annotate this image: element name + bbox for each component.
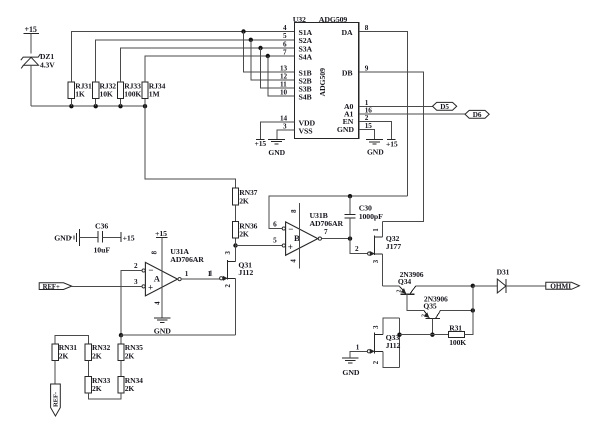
U32 pin number 2 bbox=[365, 114, 369, 122]
Q33 pin number 3 bbox=[373, 325, 380, 329]
label Q34 bbox=[398, 277, 412, 286]
svg-text:1: 1 bbox=[185, 270, 189, 278]
svg-text:2: 2 bbox=[365, 114, 369, 122]
wire U31A pin 2 feedback bbox=[121, 271, 142, 336]
label 2N3906 Q34 bbox=[400, 270, 424, 279]
svg-text:D6: D6 bbox=[473, 111, 482, 119]
label AD706AR U31A bbox=[170, 255, 204, 264]
U32 pin number 1 bbox=[365, 99, 369, 107]
label DZ1 bbox=[40, 52, 54, 61]
U32 pin name GND bbox=[337, 125, 354, 134]
wire U31B pin6 feedback loop bbox=[269, 196, 408, 228]
multiplexer U32 ADG509 body bbox=[295, 23, 359, 139]
label 1000pF bbox=[359, 212, 383, 221]
wire RN35 to RN34 bbox=[120, 360, 122, 376]
wire Q34 base down bbox=[407, 294, 424, 310]
svg-text:6: 6 bbox=[283, 40, 287, 48]
svg-text:11: 11 bbox=[280, 80, 287, 88]
wire U31B output bbox=[322, 238, 351, 240]
label Q33 bbox=[386, 333, 400, 342]
Q31 gate circle bbox=[220, 277, 223, 280]
wire bottom rail of RJ resistors bbox=[31, 105, 145, 107]
ground symbol rotated at C36 bbox=[70, 229, 80, 246]
resistor RN35 bbox=[118, 344, 124, 361]
Q32 gate pin number 2 bbox=[355, 245, 359, 253]
wire node to D31 bbox=[473, 285, 498, 287]
wire RN36 bottom to node bbox=[235, 237, 237, 245]
svg-text:GND: GND bbox=[337, 125, 354, 134]
U32 pin number 5 bbox=[283, 32, 287, 40]
port D6 bbox=[465, 110, 489, 119]
U32 pin name S2B bbox=[299, 76, 312, 85]
wire A0 pin 1 to D5 bbox=[359, 106, 433, 108]
svg-text:S4B: S4B bbox=[299, 92, 312, 101]
wire VSS pin 3 bbox=[277, 130, 295, 139]
op-amp U31B body bbox=[286, 222, 318, 255]
label 10uF bbox=[94, 246, 111, 255]
wire RJ31 lower lead bbox=[70, 99, 72, 107]
node RJ34 bottom bbox=[143, 104, 147, 108]
svg-text:100K: 100K bbox=[449, 338, 466, 347]
U32 pin number 9 bbox=[365, 64, 369, 72]
node S1A branch bbox=[241, 29, 245, 33]
power +15 at C36 bbox=[121, 232, 135, 242]
svg-text:2: 2 bbox=[134, 262, 138, 270]
label AD706AR U31B bbox=[310, 219, 344, 228]
U31A pin number 3 bbox=[134, 278, 138, 286]
svg-text:REF-: REF- bbox=[52, 392, 59, 407]
wire Q33 to R31 bbox=[400, 334, 449, 336]
svg-text:J177: J177 bbox=[386, 242, 401, 251]
wire +15 to DZ1 bbox=[30, 33, 32, 53]
svg-text:3: 3 bbox=[283, 122, 287, 130]
svg-text:ADG509: ADG509 bbox=[319, 15, 348, 24]
Q32 pin number 1 bbox=[373, 228, 380, 232]
node collector Q35 bbox=[471, 308, 475, 312]
svg-text:10uF: 10uF bbox=[94, 246, 111, 255]
U31A pin number 8 bbox=[152, 250, 159, 254]
label Q31 bbox=[238, 260, 252, 269]
svg-text:6: 6 bbox=[273, 221, 277, 229]
svg-text:OHMI: OHMI bbox=[550, 282, 571, 291]
U32 pin number 4 bbox=[283, 24, 287, 32]
U31B pin 6 circle bbox=[282, 227, 285, 230]
svg-text:DA: DA bbox=[341, 28, 353, 37]
wire Q32 source to Q34 emitter bbox=[383, 285, 400, 287]
svg-text:+15: +15 bbox=[255, 139, 267, 148]
op-amp U31A body bbox=[145, 262, 177, 296]
svg-text:2: 2 bbox=[422, 314, 428, 317]
wire RJ31 to S1A bbox=[71, 32, 294, 82]
svg-text:REF+: REF+ bbox=[43, 284, 60, 291]
svg-text:GND: GND bbox=[154, 327, 171, 336]
svg-text:10: 10 bbox=[280, 88, 287, 96]
label C36 bbox=[95, 221, 108, 230]
label GND at C36 bbox=[54, 234, 71, 243]
svg-text:2: 2 bbox=[397, 289, 403, 292]
wire C36 left lead bbox=[80, 236, 98, 238]
U32 pin name A0 bbox=[344, 102, 354, 111]
label minus U31A bbox=[148, 265, 153, 275]
Q33 gate pin number 1 bbox=[356, 343, 360, 351]
label RJ33 100K bbox=[124, 81, 141, 98]
label RN33 2K bbox=[92, 376, 110, 393]
wire RN32 to RN33 bbox=[87, 360, 89, 376]
node C30 top bbox=[348, 194, 352, 198]
svg-text:2K: 2K bbox=[92, 351, 102, 360]
svg-text:5: 5 bbox=[273, 236, 277, 244]
label U31B bbox=[310, 211, 328, 220]
node RJ33 bottom bbox=[118, 104, 122, 108]
wire U31B supply stub bbox=[298, 203, 300, 268]
svg-text:2K: 2K bbox=[239, 196, 249, 205]
svg-text:7: 7 bbox=[283, 48, 287, 56]
transistor Q32 J177 bbox=[370, 221, 382, 285]
svg-text:8: 8 bbox=[365, 24, 369, 32]
svg-text:J112: J112 bbox=[238, 268, 253, 277]
diode D31 bbox=[497, 279, 506, 293]
U32 pin name DB bbox=[342, 68, 353, 77]
svg-text:ADG509: ADG509 bbox=[318, 68, 327, 97]
node S2A branch bbox=[249, 38, 253, 42]
wire DZ1 to bottom rail bbox=[30, 65, 32, 106]
node S4A branch bbox=[266, 54, 270, 58]
wire C36 right lead bbox=[102, 236, 121, 238]
label A inside U31A bbox=[154, 274, 161, 284]
wire D31 to OHMI bbox=[506, 285, 546, 287]
U32 pin number 6 bbox=[283, 40, 287, 48]
label minus U31B bbox=[288, 224, 293, 234]
svg-text:15: 15 bbox=[365, 122, 372, 130]
port OHMI bbox=[546, 282, 580, 291]
U31B pin 5 circle bbox=[282, 244, 285, 247]
port D5 bbox=[433, 102, 457, 111]
node C30 bottom bbox=[348, 236, 352, 240]
port REF- bbox=[51, 384, 61, 416]
svg-text:+: + bbox=[288, 242, 293, 252]
label R31 bbox=[449, 324, 462, 333]
zener diode DZ1 bbox=[21, 54, 41, 69]
U31B pin number 6 bbox=[273, 221, 277, 229]
resistor RJ31 bbox=[68, 82, 74, 99]
transistor Q31 J112 bbox=[223, 246, 235, 336]
wire branch to S4B bbox=[268, 56, 295, 96]
svg-text:1: 1 bbox=[209, 270, 213, 278]
node S3A branch bbox=[258, 46, 262, 50]
wire C30 top lead bbox=[349, 196, 351, 215]
svg-text:VSS: VSS bbox=[299, 126, 313, 135]
power +15 under EN bbox=[386, 140, 398, 149]
svg-text:DB: DB bbox=[342, 68, 353, 77]
ground under pin 15 bbox=[366, 140, 383, 145]
svg-text:1000pF: 1000pF bbox=[359, 212, 383, 221]
U32 pin name VSS bbox=[299, 126, 313, 135]
U32 pin name S3B bbox=[299, 84, 312, 93]
label RN31 2K bbox=[59, 343, 77, 360]
ground at Q33 gate bbox=[342, 358, 359, 363]
transistor Q34 2N3906 bbox=[399, 286, 416, 294]
resistor RN32 bbox=[85, 344, 91, 361]
capacitor C36 bbox=[98, 231, 102, 243]
capacitor C30 bbox=[344, 215, 355, 218]
label RJ34 1M bbox=[149, 81, 166, 98]
label J112 Q31 bbox=[238, 268, 253, 277]
label ADG509 top bbox=[319, 15, 348, 24]
svg-text:D31: D31 bbox=[497, 268, 510, 277]
label D31 bbox=[497, 268, 510, 277]
U31A pin number 1b bbox=[208, 270, 212, 278]
resistor RN33 bbox=[85, 377, 91, 394]
wire branch to S1B bbox=[244, 32, 295, 73]
svg-text:AD706AR: AD706AR bbox=[310, 219, 344, 228]
wire RN35 top lead bbox=[120, 335, 122, 344]
resistor RN31 bbox=[52, 344, 58, 361]
svg-text:+15: +15 bbox=[25, 25, 37, 34]
label U31A bbox=[170, 247, 189, 256]
svg-text:9: 9 bbox=[365, 64, 369, 72]
U32 pin name DA bbox=[341, 28, 353, 37]
svg-text:GND: GND bbox=[268, 148, 285, 157]
U32 pin number 13 bbox=[280, 64, 287, 72]
wire branch to S3B bbox=[261, 48, 295, 88]
wire RN31 to REF- bbox=[54, 360, 56, 384]
wire RJ33 to S3A bbox=[121, 48, 295, 82]
Q31 pin number 1 bbox=[209, 270, 213, 278]
wire RJ34 lower lead bbox=[144, 99, 146, 107]
wire REF+ to pin 3 bbox=[72, 285, 142, 287]
svg-text:4: 4 bbox=[283, 24, 287, 32]
label 2N3906 Q35 bbox=[424, 294, 448, 303]
label U32 bbox=[293, 15, 306, 24]
wire R31 to vertical rail bbox=[465, 286, 473, 335]
wire C30 bottom lead bbox=[349, 218, 351, 239]
label J177 bbox=[386, 242, 401, 251]
U32 pin name S3A bbox=[299, 44, 313, 53]
transistor Q35 2N3906 bbox=[424, 310, 441, 318]
svg-text:12: 12 bbox=[280, 72, 287, 80]
Q34 pin number 2 bbox=[397, 289, 403, 292]
label B inside U31B bbox=[294, 233, 300, 243]
label RJ32 10K bbox=[100, 81, 117, 98]
label ADG509 vertical bbox=[318, 68, 327, 97]
U32 pin name S4A bbox=[299, 52, 313, 61]
power +15 top-left terminal bbox=[24, 25, 39, 34]
U31B pin number 8 bbox=[291, 209, 298, 213]
wire GND pin 15 bbox=[359, 130, 375, 140]
wire Q34 collector to node bbox=[416, 285, 473, 287]
wire RJ34 to S4A bbox=[145, 56, 295, 82]
svg-text:U32: U32 bbox=[293, 15, 306, 24]
svg-text:−: − bbox=[148, 265, 153, 275]
node Q31 drain junction bbox=[233, 243, 237, 247]
label GND under VSS bbox=[268, 148, 285, 157]
wire A1 pin 16 to D6 bbox=[359, 113, 465, 115]
wire RJ32 lower lead bbox=[95, 99, 97, 107]
U32 pin name EN bbox=[343, 117, 354, 126]
label RN34 2K bbox=[125, 376, 143, 393]
U32 pin number 11 bbox=[280, 80, 287, 88]
Q31 pin number 3 bbox=[225, 250, 232, 254]
svg-text:GND: GND bbox=[367, 147, 384, 156]
svg-text:7: 7 bbox=[324, 228, 328, 236]
U31A output pin 1 circle bbox=[178, 278, 181, 281]
U31B pin number 5 bbox=[273, 236, 277, 244]
node RJ32 bottom bbox=[94, 104, 98, 108]
svg-text:2: 2 bbox=[355, 245, 359, 253]
resistor RJ33 bbox=[117, 82, 123, 99]
resistor RJ32 bbox=[93, 82, 99, 99]
svg-text:R31: R31 bbox=[449, 324, 462, 333]
svg-text:+15: +15 bbox=[123, 233, 135, 242]
svg-text:1K: 1K bbox=[75, 90, 85, 99]
U32 pin number 14 bbox=[280, 114, 287, 122]
svg-text:2K: 2K bbox=[59, 351, 69, 360]
wire RJ34 node to RN37 bbox=[145, 106, 236, 188]
wire RJ32 to S2A bbox=[96, 40, 295, 82]
Q31 pin number 2 bbox=[225, 283, 232, 287]
svg-text:C36: C36 bbox=[95, 221, 108, 230]
svg-text:+: + bbox=[148, 283, 153, 293]
resistor RN37 bbox=[232, 188, 238, 205]
label J112 Q33 bbox=[386, 341, 401, 350]
U32 pin name VDD bbox=[299, 118, 316, 127]
resistor R31 bbox=[449, 332, 465, 338]
label Q35 bbox=[423, 302, 437, 311]
svg-text:5: 5 bbox=[283, 32, 287, 40]
power +15 under VDD bbox=[255, 139, 267, 148]
svg-text:1M: 1M bbox=[149, 90, 160, 99]
label C30 bbox=[359, 204, 372, 213]
wire Q35 base down bbox=[431, 318, 433, 334]
U31B output pin 7 circle bbox=[318, 237, 321, 240]
node feedback rail left bbox=[119, 333, 123, 337]
label RN35 2K bbox=[125, 343, 143, 360]
label 100K bbox=[449, 338, 466, 347]
svg-text:3: 3 bbox=[134, 278, 138, 286]
U32 pin number 16 bbox=[365, 107, 372, 115]
wire node to Q32 gate bbox=[350, 239, 368, 254]
svg-text:10K: 10K bbox=[100, 90, 113, 99]
svg-text:AD706AR: AD706AR bbox=[170, 255, 204, 264]
wire U31A supply vertical bbox=[161, 237, 163, 317]
wire feedback rail bbox=[121, 334, 236, 336]
U32 pin name S1A bbox=[299, 28, 313, 37]
transistor Q33 J112 bbox=[370, 318, 399, 367]
wire node to U31B pin 5 bbox=[236, 245, 283, 247]
Q33 gate circle bbox=[367, 350, 370, 353]
wire Q35 collector to node bbox=[441, 309, 473, 311]
wire branch to S2B bbox=[251, 40, 295, 80]
wire U31A output to Q31 gate bbox=[181, 277, 219, 280]
ground under VSS bbox=[268, 139, 285, 144]
resistor RN34 bbox=[118, 377, 124, 394]
wire RJ33 lower lead bbox=[120, 99, 122, 107]
label plus U31B bbox=[288, 242, 293, 252]
U32 pin name A1 bbox=[344, 110, 354, 119]
svg-text:Q35: Q35 bbox=[423, 302, 437, 311]
ground under U31A bbox=[154, 318, 171, 323]
svg-text:S4A: S4A bbox=[299, 52, 313, 61]
resistor RJ34 bbox=[142, 82, 148, 99]
Q33 pin number 2 bbox=[373, 360, 380, 364]
U31B pin number 4 bbox=[291, 259, 298, 263]
wire VDD pin 14 bbox=[260, 122, 294, 140]
wire RN31-RN32 bridge bbox=[55, 336, 88, 344]
label GND at Q33 bbox=[342, 368, 359, 377]
U32 pin number 8 bbox=[365, 24, 369, 32]
svg-text:2K: 2K bbox=[239, 230, 249, 239]
svg-text:D5: D5 bbox=[440, 103, 449, 111]
U32 pin number 12 bbox=[280, 72, 287, 80]
U31B pin number 7 bbox=[324, 228, 328, 236]
wire RN37 to RN36 bbox=[235, 205, 237, 222]
U32 pin name S2A bbox=[299, 36, 313, 45]
U32 pin number 15 bbox=[365, 122, 372, 130]
wire DB pin 9 bbox=[359, 72, 424, 221]
svg-text:2K: 2K bbox=[125, 384, 135, 393]
power +15 above U31A bbox=[155, 229, 168, 238]
svg-text:J112: J112 bbox=[386, 341, 401, 350]
svg-text:+15: +15 bbox=[155, 229, 167, 238]
label GND under pin 15 bbox=[367, 147, 384, 156]
node collector Q34 bbox=[471, 284, 475, 288]
svg-text:A: A bbox=[154, 274, 161, 284]
node RJ31 bottom bbox=[69, 104, 73, 108]
svg-text:1: 1 bbox=[356, 343, 360, 351]
svg-text:GND: GND bbox=[342, 368, 359, 377]
node Q33 output bbox=[397, 333, 401, 337]
svg-text:−: − bbox=[288, 224, 293, 234]
Q35 pin number 2 bbox=[422, 314, 428, 317]
U32 pin number 7 bbox=[283, 48, 287, 56]
wire RN33 RN34 bottom link bbox=[88, 393, 121, 399]
label plus U31A bbox=[148, 283, 153, 293]
U32 pin number 10 bbox=[280, 88, 287, 96]
label RN37 2K bbox=[239, 188, 257, 205]
U32 pin name S4B bbox=[299, 92, 312, 101]
Q32 gate circle bbox=[368, 252, 371, 255]
svg-text:2K: 2K bbox=[125, 351, 135, 360]
wire DA pin 8 bbox=[359, 32, 408, 197]
U31A pin number 1a bbox=[185, 270, 189, 278]
resistor RN36 bbox=[232, 221, 238, 238]
svg-text:13: 13 bbox=[280, 64, 287, 72]
label GND under U31A bbox=[154, 327, 171, 336]
label RN32 2K bbox=[92, 343, 110, 360]
U31A pin number 2 bbox=[134, 262, 138, 270]
U31A pin 2 circle bbox=[142, 269, 145, 272]
wire EN pin 2 bbox=[359, 122, 392, 140]
U32 pin number 3 bbox=[283, 122, 287, 130]
svg-text:GND: GND bbox=[54, 234, 71, 243]
svg-text:2K: 2K bbox=[92, 384, 102, 393]
port REF+ bbox=[39, 283, 71, 291]
svg-text:4.3V: 4.3V bbox=[40, 60, 55, 69]
label RN36 2K bbox=[239, 221, 257, 238]
Q32 pin number 3 bbox=[373, 259, 380, 263]
svg-text:Q34: Q34 bbox=[398, 277, 412, 286]
svg-text:+15: +15 bbox=[386, 140, 398, 149]
label Q32 bbox=[386, 234, 400, 243]
U31A pin number 4 bbox=[154, 301, 161, 305]
label 4.3V bbox=[40, 60, 55, 69]
svg-text:14: 14 bbox=[280, 114, 287, 122]
label RJ31 1K bbox=[75, 81, 92, 98]
U31A pin 3 circle bbox=[142, 285, 145, 288]
wire GND to Q33 gate bbox=[350, 351, 368, 358]
svg-text:100K: 100K bbox=[124, 90, 141, 99]
node Q35 base rail bbox=[430, 333, 434, 337]
